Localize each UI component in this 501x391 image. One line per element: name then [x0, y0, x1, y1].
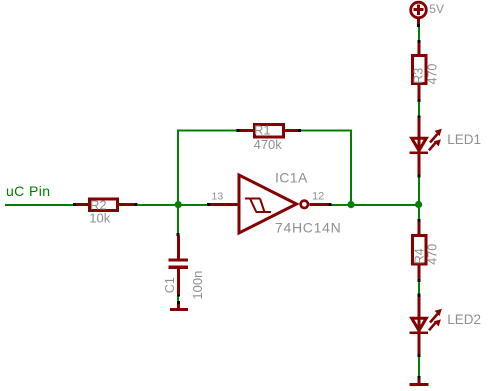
wire R2 to node A: [134, 203, 178, 206]
wire LED2 to ground: [418, 354, 421, 379]
resistor R4: [413, 222, 427, 280]
svg-text:12: 12: [312, 191, 324, 203]
svg-text:IC1A: IC1A: [275, 169, 308, 185]
svg-text:R1: R1: [254, 122, 271, 137]
wire node A to C1: [177, 205, 180, 237]
junction node A input: [175, 201, 182, 208]
svg-text:13: 13: [212, 191, 224, 203]
svg-text:10k: 10k: [89, 210, 110, 225]
capacitor C1: [168, 236, 188, 295]
inverter output pin line 12: [310, 203, 330, 206]
wire inverter output to node: [329, 203, 419, 206]
op-amp U1 inverter IC1A pin line 13: [210, 203, 240, 206]
svg-text:R3: R3: [412, 68, 426, 84]
junction node output/LED: [415, 201, 422, 208]
svg-text:LED2: LED2: [447, 312, 481, 327]
svg-text:5V: 5V: [429, 2, 444, 16]
LED2 diode: [410, 297, 442, 355]
wire LED1 to node: [418, 175, 421, 202]
wire C1 to ground: [177, 294, 180, 304]
resistor R3: [413, 43, 427, 100]
svg-text:470k: 470k: [254, 137, 283, 152]
junction node B feedback: [347, 201, 354, 208]
ground symbol right: [410, 379, 429, 387]
LED1 diode: [410, 118, 442, 176]
supply +5V symbol: [411, 2, 427, 24]
wire R4 to LED2: [418, 279, 421, 297]
wire +5V to R3: [417, 24, 421, 43]
svg-text:470: 470: [426, 244, 440, 265]
svg-text:470: 470: [426, 64, 440, 85]
wire R3 to LED1: [418, 99, 421, 118]
svg-text:100n: 100n: [190, 271, 205, 300]
wire feedback right vertical: [298, 129, 351, 205]
wire node to R4: [418, 205, 421, 222]
wire feedback left vertical: [178, 129, 240, 205]
wire uC Pin to R2: [5, 203, 76, 206]
inverter IC1A triangle: [239, 175, 308, 233]
svg-text:74HC14N: 74HC14N: [275, 220, 341, 236]
ground symbol left: [170, 304, 188, 311]
svg-text:LED1: LED1: [447, 132, 481, 147]
resistor R1: [240, 125, 299, 137]
svg-text:R4: R4: [412, 248, 426, 264]
svg-text:C1: C1: [163, 277, 177, 293]
wire node A to inverter input: [179, 203, 211, 206]
resistor R2: [76, 199, 136, 211]
svg-text:uC Pin: uC Pin: [6, 183, 50, 199]
